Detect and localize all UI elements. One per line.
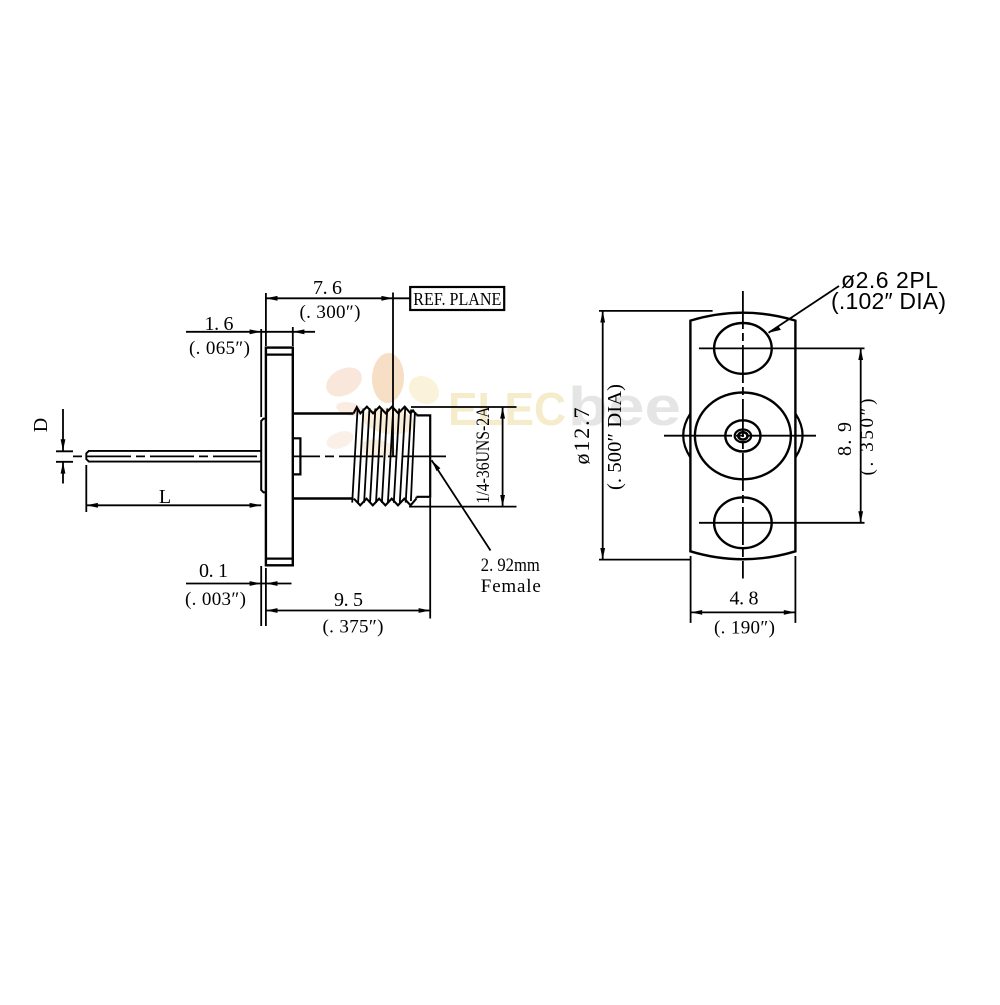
leader 2.92mm Female — [432, 460, 491, 550]
svg-text:1. 6: 1. 6 — [205, 313, 234, 335]
svg-text:(. 065″): (. 065″) — [189, 338, 250, 359]
front tip section — [417, 414, 431, 499]
svg-text:D: D — [30, 418, 52, 432]
dimension 7.6 — [266, 293, 410, 346]
bottom mounting hole — [714, 497, 772, 548]
top mounting hole — [714, 323, 772, 374]
flange bottom cap line — [266, 557, 293, 559]
bottom hole centerline — [699, 522, 865, 524]
thread crests top — [354, 407, 417, 414]
dimension 1.6 — [186, 327, 315, 417]
dimension 8.9 — [858, 348, 863, 522]
dimension 1/4-36UNS-2A — [409, 407, 517, 507]
REF. PLANE box — [410, 287, 504, 310]
thread flank lines — [352, 408, 415, 503]
svg-text:Female: Female — [481, 576, 541, 597]
top hole centerline — [699, 347, 865, 349]
svg-text:(.102″ DIA): (.102″ DIA) — [831, 288, 946, 314]
svg-text:0. 1: 0. 1 — [199, 560, 228, 582]
leader dia 2.6 2PL — [769, 286, 840, 333]
ref plane vertical line — [392, 293, 394, 457]
dimension L — [86, 465, 261, 512]
pin (center contact) — [86, 451, 261, 462]
svg-text:2. 92mm: 2. 92mm — [481, 555, 540, 576]
gasket lip plate — [261, 419, 266, 493]
svg-text:ELEC: ELEC — [448, 383, 566, 435]
svg-text:(. 300″): (. 300″) — [300, 302, 361, 323]
dimension 0.1 — [186, 566, 292, 626]
svg-text:(. 500″ DIA): (. 500″ DIA) — [604, 384, 626, 490]
dimension D — [56, 409, 73, 484]
svg-text:(. 375″): (. 375″) — [323, 617, 384, 638]
flange (side) — [266, 348, 293, 566]
center interface circles — [695, 393, 791, 480]
left bulge arc — [683, 414, 690, 458]
svg-text:(. 003″): (. 003″) — [185, 589, 246, 610]
dimension 4.8 — [690, 556, 795, 623]
flange outline (front) — [690, 313, 795, 560]
body cylinder — [293, 414, 354, 499]
vertical centerline (front view) — [742, 291, 744, 579]
svg-text:1/4-36UNS-2A: 1/4-36UNS-2A — [474, 406, 494, 504]
svg-text:4. 8: 4. 8 — [730, 588, 759, 610]
dimension dia 12.7 — [599, 311, 713, 560]
svg-text:ø12.7: ø12.7 — [569, 408, 594, 465]
svg-text:7. 6: 7. 6 — [313, 277, 342, 299]
flange top cap line — [266, 354, 293, 356]
dimension 9.5 — [266, 498, 430, 619]
center axis line (left view) — [73, 455, 448, 457]
svg-text:REF. PLANE: REF. PLANE — [413, 289, 501, 309]
svg-text:9. 5: 9. 5 — [334, 589, 363, 611]
svg-text:(. 190″): (. 190″) — [714, 618, 775, 639]
svg-text:L: L — [159, 486, 171, 508]
watermark flower petals — [321, 352, 444, 461]
thread crests bottom — [354, 499, 416, 506]
svg-text:8. 9: 8. 9 — [834, 422, 856, 456]
svg-text:(. 350″): (. 350″) — [857, 399, 878, 476]
right bulge arc — [795, 414, 802, 458]
rear boss step — [293, 438, 301, 474]
horizontal centerline (front view) — [664, 435, 820, 437]
